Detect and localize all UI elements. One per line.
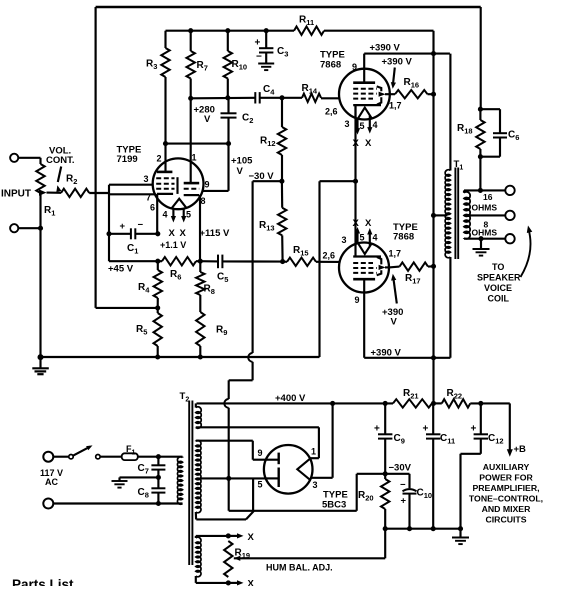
svg-text:PREAMPLIFIER,: PREAMPLIFIER, (472, 483, 539, 493)
svg-text:−: − (400, 480, 406, 491)
svg-text:16: 16 (483, 192, 493, 202)
svg-text:6: 6 (150, 203, 155, 213)
svg-text:1,7: 1,7 (389, 101, 402, 111)
svg-text:5: 5 (360, 121, 365, 131)
svg-text:TO: TO (492, 262, 504, 272)
svg-text:7: 7 (146, 193, 151, 203)
svg-text:9: 9 (258, 448, 263, 458)
svg-text:4: 4 (373, 233, 378, 243)
svg-text:X: X (248, 532, 255, 543)
svg-text:AND MIXER: AND MIXER (482, 504, 531, 514)
svg-text:HUM BAL. ADJ.: HUM BAL. ADJ. (266, 563, 333, 573)
svg-text:4: 4 (163, 210, 168, 220)
svg-text:3: 3 (144, 174, 149, 184)
svg-text:Parts List: Parts List (12, 577, 74, 586)
svg-text:8: 8 (201, 196, 206, 206)
svg-text:SPEAKER: SPEAKER (477, 273, 521, 283)
svg-text:+: + (374, 424, 380, 435)
svg-text:X: X (353, 138, 360, 149)
svg-text:9: 9 (355, 295, 360, 305)
svg-text:CONT.: CONT. (46, 155, 75, 166)
svg-text:4: 4 (373, 120, 378, 130)
svg-text:OHMS: OHMS (472, 203, 498, 213)
svg-text:AUXILIARY: AUXILIARY (483, 462, 530, 472)
svg-text:VOICE: VOICE (484, 283, 512, 293)
svg-text:+115 V: +115 V (200, 228, 231, 239)
svg-text:CIRCUITS: CIRCUITS (485, 515, 526, 525)
svg-text:3: 3 (342, 235, 347, 245)
svg-text:OHMS: OHMS (472, 228, 498, 238)
svg-text:3: 3 (345, 119, 350, 129)
svg-text:INPUT: INPUT (1, 189, 31, 200)
svg-text:+: + (471, 424, 477, 435)
svg-text:2,6: 2,6 (325, 107, 338, 117)
svg-text:+: + (255, 38, 261, 49)
svg-text:−30V: −30V (389, 463, 412, 474)
svg-text:X: X (248, 579, 255, 587)
svg-text:5: 5 (186, 210, 191, 220)
svg-text:+390 V: +390 V (382, 57, 413, 68)
svg-text:7868: 7868 (393, 232, 414, 243)
svg-text:X: X (365, 218, 372, 229)
svg-text:5: 5 (258, 480, 263, 490)
svg-text:+45 V: +45 V (108, 264, 134, 275)
svg-text:X: X (180, 228, 187, 239)
svg-text:3: 3 (313, 480, 318, 490)
svg-text:X: X (353, 218, 360, 229)
svg-text:+: + (401, 496, 407, 507)
svg-text:+390 V: +390 V (371, 348, 402, 359)
svg-text:POWER FOR: POWER FOR (479, 473, 533, 483)
svg-text:X: X (169, 228, 176, 239)
svg-text:1: 1 (311, 447, 316, 457)
svg-text:+: + (120, 221, 126, 232)
svg-text:−30 V: −30 V (249, 171, 275, 182)
svg-text:+400 V: +400 V (275, 393, 306, 404)
svg-text:AC: AC (45, 477, 58, 487)
svg-text:5BC3: 5BC3 (322, 500, 346, 511)
svg-text:+: + (423, 424, 429, 435)
svg-text:+390 V: +390 V (370, 43, 401, 54)
svg-text:−: − (138, 220, 144, 231)
svg-text:5: 5 (360, 233, 365, 243)
svg-text:−: − (256, 52, 262, 63)
svg-text:X: X (365, 138, 372, 149)
svg-text:V: V (204, 114, 211, 125)
svg-text:9: 9 (352, 62, 357, 72)
svg-text:7199: 7199 (117, 154, 138, 165)
svg-text:2,6: 2,6 (323, 251, 336, 261)
svg-text:9: 9 (205, 180, 210, 190)
svg-text:V: V (237, 166, 244, 177)
svg-text:1: 1 (192, 153, 197, 163)
svg-text:+B: +B (514, 444, 527, 455)
svg-text:2: 2 (157, 154, 162, 164)
svg-text:COIL: COIL (488, 294, 510, 304)
svg-text:7868: 7868 (320, 60, 341, 71)
svg-text:V: V (391, 317, 398, 328)
svg-text:+105: +105 (231, 156, 253, 167)
svg-text:+1.1 V: +1.1 V (160, 240, 186, 250)
svg-text:1,7: 1,7 (389, 249, 402, 259)
svg-text:TONE–CONTROL,: TONE–CONTROL, (469, 494, 543, 504)
